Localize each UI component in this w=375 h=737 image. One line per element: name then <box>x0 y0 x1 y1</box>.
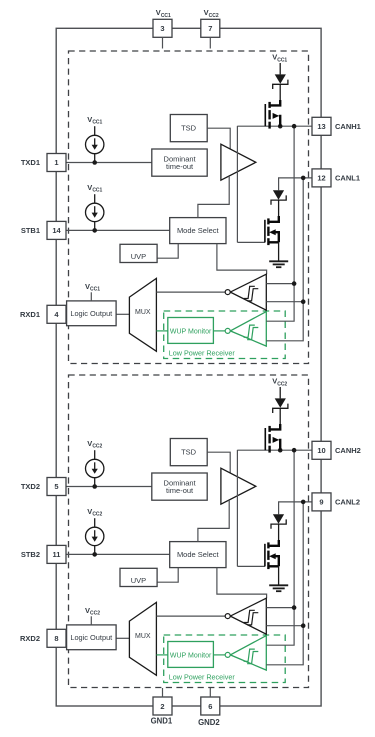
svg-text:12: 12 <box>317 174 325 183</box>
svg-text:TXD2: TXD2 <box>21 482 40 491</box>
svg-text:time-out: time-out <box>166 162 194 171</box>
svg-text:CANH2: CANH2 <box>335 446 361 455</box>
svg-text:10: 10 <box>317 446 325 455</box>
svg-text:MUX: MUX <box>135 633 151 640</box>
svg-text:13: 13 <box>317 122 325 131</box>
chip outline <box>56 28 321 706</box>
svg-text:RXD2: RXD2 <box>20 634 40 643</box>
channel 2 <box>47 375 331 688</box>
svg-text:7: 7 <box>208 24 212 33</box>
pin VCC2 top <box>201 19 220 37</box>
svg-text:CANH1: CANH1 <box>335 122 361 131</box>
svg-text:GND2: GND2 <box>198 718 220 727</box>
svg-text:14: 14 <box>52 226 61 235</box>
channel 1 <box>47 51 331 364</box>
svg-text:TSD: TSD <box>181 447 197 456</box>
svg-text:GND1: GND1 <box>151 717 173 726</box>
svg-text:11: 11 <box>53 550 61 559</box>
svg-text:UVP: UVP <box>131 252 146 261</box>
svg-text:9: 9 <box>319 498 323 507</box>
svg-text:RXD1: RXD1 <box>20 310 40 319</box>
svg-text:Logic Output: Logic Output <box>70 309 112 318</box>
svg-text:8: 8 <box>54 634 58 643</box>
svg-text:STB2: STB2 <box>21 550 40 559</box>
svg-text:Logic Output: Logic Output <box>70 633 112 642</box>
svg-text:2: 2 <box>160 702 164 711</box>
svg-text:STB1: STB1 <box>21 226 40 235</box>
svg-text:Mode Select: Mode Select <box>177 550 220 559</box>
svg-text:WUP Monitor: WUP Monitor <box>170 652 212 659</box>
svg-text:UVP: UVP <box>131 576 146 585</box>
pin GND1 bottom <box>153 697 172 715</box>
svg-text:6: 6 <box>208 702 212 711</box>
svg-text:Low Power Receiver: Low Power Receiver <box>169 349 236 358</box>
svg-text:1: 1 <box>54 158 58 167</box>
svg-text:Low Power Receiver: Low Power Receiver <box>169 673 236 682</box>
svg-text:MUX: MUX <box>135 309 151 316</box>
svg-text:CANL1: CANL1 <box>335 174 360 183</box>
svg-text:3: 3 <box>160 24 164 33</box>
svg-text:CANL2: CANL2 <box>335 498 360 507</box>
svg-text:TSD: TSD <box>181 123 197 132</box>
svg-text:Mode Select: Mode Select <box>177 226 220 235</box>
svg-text:time-out: time-out <box>166 486 194 495</box>
svg-text:WUP Monitor: WUP Monitor <box>170 328 212 335</box>
svg-text:5: 5 <box>54 482 58 491</box>
pin VCC1 top <box>153 19 172 37</box>
pin GND2 bottom <box>201 697 220 715</box>
svg-text:TXD1: TXD1 <box>21 158 40 167</box>
